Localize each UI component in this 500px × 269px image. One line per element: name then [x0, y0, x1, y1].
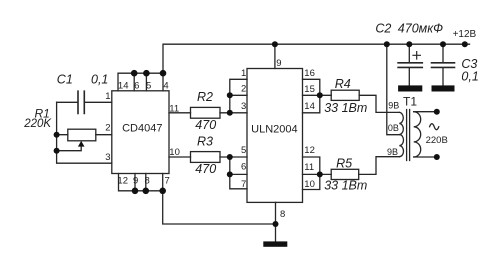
junction: CD4047 pin 8 bottom — [143, 188, 150, 195]
junction: ULN pin 15 — [317, 92, 323, 98]
junction: ground bus at ULN pin 8 — [273, 221, 279, 227]
svg-text:470мкФ: 470мкФ — [398, 22, 443, 36]
wire: ULN2004 left bracket pins 5,6,7 — [230, 157, 247, 189]
IC U1 CD4047 box — [112, 91, 169, 174]
transformer T1 primary winding — [399, 112, 403, 156]
ground bar under ULN pin 8 — [263, 241, 287, 246]
svg-text:R3: R3 — [197, 135, 213, 149]
svg-text:3: 3 — [105, 152, 110, 163]
svg-text:11: 11 — [304, 162, 314, 173]
junction: pin9 on rail — [272, 41, 278, 47]
wire: CD4047 top pins 14,6,5,4 connector — [118, 73, 163, 91]
svg-text:7: 7 — [164, 175, 169, 186]
svg-text:9: 9 — [276, 58, 281, 69]
junction: CD4047 pin 4 top — [160, 70, 167, 77]
wire: ULN2004 right bracket pins 16,15,14 — [303, 79, 320, 113]
svg-text:C2: C2 — [375, 22, 391, 36]
junction: C2 on rail — [406, 41, 412, 47]
IC U2 ULN2004 box — [247, 69, 303, 203]
wire: ULN2004 left bracket pins 1,2,3 — [230, 79, 247, 113]
junction: ULN pin 5 — [227, 154, 233, 160]
svg-text:220В: 220В — [426, 135, 448, 146]
svg-text:15: 15 — [304, 84, 315, 95]
sine wave symbol 220V AC — [430, 124, 439, 130]
svg-text:16: 16 — [304, 68, 315, 79]
capacitor C2 leads — [408, 44, 410, 85]
svg-text:6: 6 — [241, 162, 246, 173]
svg-text:C1: C1 — [57, 73, 73, 87]
svg-text:5: 5 — [241, 145, 246, 156]
wire: ULN pin11 to R5 and R5 to transformer 9V bottom tap — [320, 157, 400, 175]
svg-text:R5: R5 — [336, 156, 352, 170]
svg-text:8: 8 — [145, 175, 150, 186]
wire: +12V top rail with riser from CD4047 pin4 connector — [163, 44, 470, 73]
svg-text:ULN2004: ULN2004 — [251, 124, 297, 136]
junction: CD4047 pin 7 bottom — [159, 188, 166, 195]
svg-text:4: 4 — [163, 80, 168, 91]
junction: ULN pin 2 — [227, 92, 233, 98]
svg-text:7: 7 — [241, 179, 246, 190]
junction: R1 left lead on bus — [54, 132, 60, 138]
svg-text:33 1Вт: 33 1Вт — [324, 178, 367, 192]
wire: R1 wiper return to left bus — [57, 146, 82, 151]
junction: CD4047 pin 5 top — [143, 70, 150, 77]
wire: C1 leads into CD4047 pin 1 — [57, 101, 112, 103]
junction: ULN pin 11 — [317, 171, 323, 177]
wire: CD4047 pin7 down and ground bus to ULN2004 pin 8 — [163, 191, 276, 224]
ground bar under C3 — [432, 85, 455, 91]
svg-text:9: 9 — [133, 175, 138, 186]
wire: left vertical bus to CD4047 pin 3 — [57, 102, 112, 163]
transformer T1 secondary winding — [414, 112, 421, 157]
transformer T1 core — [407, 110, 410, 161]
svg-text:11: 11 — [169, 103, 179, 114]
svg-text:3: 3 — [241, 101, 246, 112]
svg-text:33 1Вт: 33 1Вт — [324, 101, 367, 115]
wire: ULN2004 pin 8 down to ground — [275, 202, 277, 241]
svg-text:0,1: 0,1 — [461, 70, 478, 84]
resistor R2 body — [191, 107, 221, 118]
junction: CD4047 pin 9 bottom — [132, 188, 139, 195]
R1 wiper arrowhead — [78, 141, 85, 147]
svg-text:8: 8 — [280, 209, 285, 220]
resistor R3 body — [191, 152, 221, 163]
junction: CD4047 pin 6 top — [131, 70, 138, 77]
capacitor C1 plates — [78, 91, 84, 113]
svg-text:2: 2 — [241, 83, 246, 94]
svg-text:220K: 220K — [23, 118, 52, 130]
svg-text:5: 5 — [146, 80, 151, 91]
svg-text:R4: R4 — [335, 77, 351, 91]
svg-text:10: 10 — [304, 179, 315, 190]
svg-text:R2: R2 — [197, 90, 213, 104]
svg-text:9В: 9В — [388, 100, 399, 110]
terminal: 220V output bottom — [434, 154, 440, 160]
wire: R1 leads to CD4047 pin 2 — [57, 134, 112, 136]
svg-text:1: 1 — [241, 68, 246, 79]
junction: center-tap feed on rail — [384, 41, 390, 47]
capacitor C2 plates — [398, 63, 422, 68]
wire: +12V rail to transformer 0V center tap — [387, 44, 400, 135]
svg-text:470: 470 — [195, 118, 216, 132]
potentiometer R1 body — [68, 129, 96, 141]
ground bar under C2 — [398, 85, 422, 91]
resistor R5 body — [331, 169, 359, 179]
junction: ULN pin 3 — [227, 110, 233, 116]
svg-text:12: 12 — [117, 175, 128, 186]
svg-text:CD4047: CD4047 — [122, 123, 162, 135]
svg-text:1: 1 — [105, 91, 110, 102]
terminal: +12V input — [462, 41, 468, 47]
svg-text:12: 12 — [304, 145, 315, 156]
svg-text:0В: 0В — [388, 123, 399, 133]
terminal: 220V output top — [434, 109, 440, 115]
svg-text:T1: T1 — [403, 95, 417, 109]
svg-text:470: 470 — [195, 162, 216, 176]
wire: ULN2004 right bracket pins 12,11,10 — [303, 157, 320, 190]
capacitor C2 polarity plus sign — [413, 52, 420, 59]
svg-text:+12В: +12В — [453, 29, 477, 40]
wire: ULN pin15 to R4 and R4 to transformer 9V top tap — [320, 95, 400, 112]
svg-text:10: 10 — [169, 147, 180, 158]
junction: R1 wiper on bus — [54, 148, 60, 154]
capacitor C3 leads — [442, 44, 444, 85]
svg-text:14: 14 — [118, 80, 129, 91]
junction: C3 on rail — [440, 41, 446, 47]
wire: ULN2004 pin 9 to rail — [274, 44, 276, 68]
svg-text:14: 14 — [304, 101, 315, 112]
junction: ULN pin 6 — [227, 171, 233, 177]
svg-text:2: 2 — [105, 122, 110, 133]
svg-text:6: 6 — [134, 80, 139, 91]
wire: CD4047 pin10 to R3 to ULN2004 pin 5 — [169, 156, 247, 158]
capacitor C3 plates — [432, 63, 455, 68]
wire: CD4047 pin11 to R2 to ULN2004 pin 3 — [169, 112, 247, 114]
svg-text:0,1: 0,1 — [91, 73, 108, 87]
wire: CD4047 bottom pins 12,9,8,7 connector — [119, 174, 163, 191]
svg-text:9В: 9В — [387, 147, 398, 157]
resistor R4 body — [331, 90, 359, 100]
wire: secondary 220V output terminals — [414, 112, 437, 157]
